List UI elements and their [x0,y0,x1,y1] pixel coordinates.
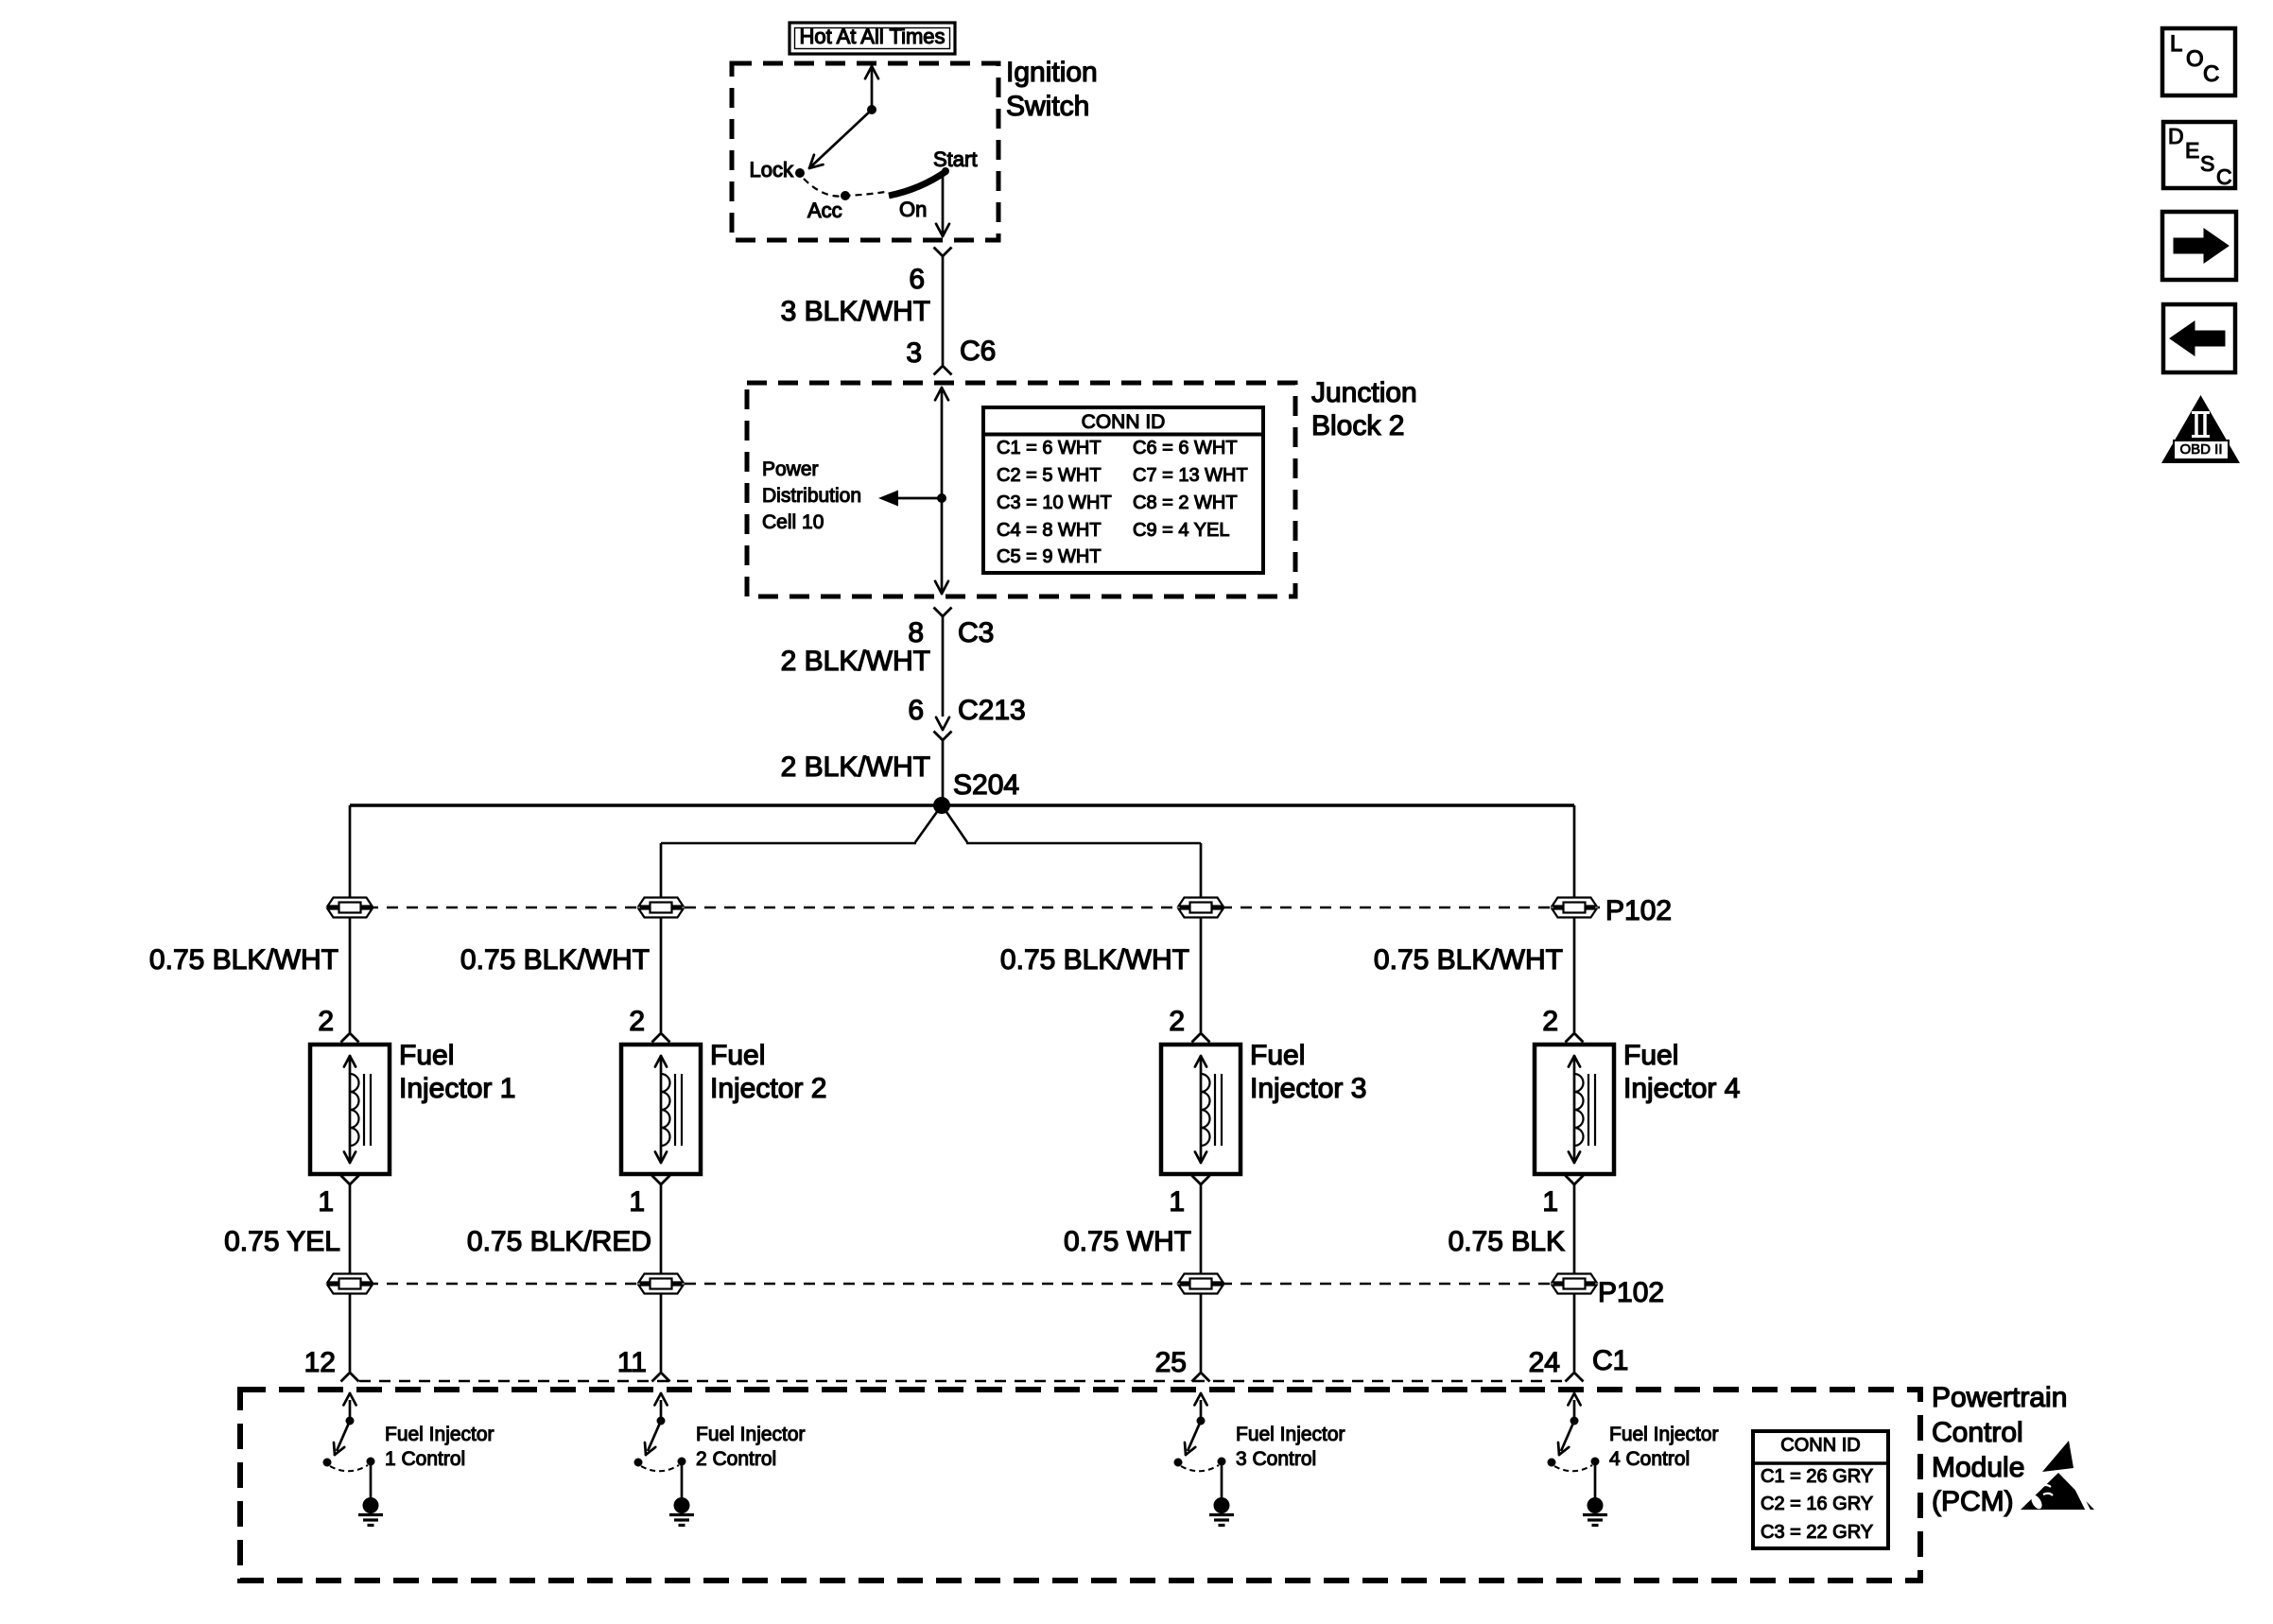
CONN ID table 1 header [1082,412,1166,432]
CONN ID table 1 border [983,407,1263,573]
splice S204 label [953,771,1019,800]
ignition switch pivot dot [867,105,876,114]
inner bus wire right segment [966,842,1201,845]
fuel injector 3 coil [1201,1074,1210,1146]
connector chevron ignition pin 6 [934,248,952,257]
ground symbol column 4 [1588,1497,1604,1513]
PCM driver ground stem column 2 [681,1465,684,1498]
connector chevron PCM pin column 4 [1566,1373,1584,1382]
PCM driver contact dot left column 4 [1548,1459,1556,1467]
wire 0.75 BLK/WHT column 4 [1573,918,1576,1032]
sidebar LOC icon box [2162,28,2235,95]
main bus wire horizontal [350,803,1574,807]
PCM driver arrow column 2 [660,1400,663,1421]
On position label [899,199,927,220]
wire label 2 BLK/WHT upper [781,648,930,676]
connector P102 label row 1 [1605,897,1672,925]
fuel injector 4 solenoid arrow [1573,1058,1576,1161]
pin 6 label C213 [908,697,924,725]
Lock contact dot [795,168,805,178]
harness dashed line P102 row 2 [327,1283,1592,1285]
pin 6 label [909,266,925,294]
wire injector to P102 column 4 [1573,1184,1576,1274]
injector pin 1 label column 4 [1542,1188,1558,1217]
fuel injector 2 box [621,1045,701,1174]
PCM driver lever column 2 [648,1421,661,1451]
in-line connector P102 upper column 3 [1179,898,1223,918]
wire color label column 3 [1064,1228,1191,1256]
sidebar forward arrow icon [2162,212,2236,280]
injector pin 2 label column 1 [318,1008,334,1036]
PCM pin 25 label [1155,1349,1187,1377]
fuel injector 1 core lines [363,1074,365,1146]
ground symbol column 1 [363,1497,379,1513]
ESD warning symbol [2042,1441,2073,1472]
sidebar DESC icon box [2163,122,2235,188]
PCM pin 24 label [1529,1349,1560,1377]
connector chevron injector pin 2 column 4 [1566,1033,1584,1043]
PCM driver contact dot left column 3 [1174,1459,1183,1467]
PCM driver arrow column 4 [1573,1400,1576,1421]
fuel injector 4 core lines [1588,1074,1589,1146]
PCM driver lever column 3 [1188,1421,1201,1451]
Start contact dot [942,167,949,175]
fuel injector 3 core lines [1214,1074,1216,1146]
in-line connector P102 lower column 1 [328,1274,373,1294]
CONN ID table 1 left column [997,435,1112,571]
CONN ID table 1 header rule [983,433,1263,437]
wire label 3 BLK/WHT [781,298,930,326]
wire color label column 4 [1449,1228,1565,1256]
connector chevron PCM pin column 3 [1192,1373,1210,1382]
PCM driver lever column 1 [337,1421,350,1451]
in-line connector P102 upper column 2 [639,898,684,918]
CONN ID table 2 border [1753,1431,1888,1548]
connector chevron PCM pin column 2 [652,1373,670,1382]
wire label 0.75 BLK/WHT column 4 [1374,946,1563,975]
sidebar LOC letters [2170,33,2182,56]
PCM driver contact dot left column 1 [323,1459,332,1467]
PCM driver ground stem column 4 [1594,1465,1597,1498]
PCM connector C1 label [1592,1347,1628,1375]
PCM driver contact dot left column 2 [634,1459,643,1467]
wire from bus to P102 column 4 [1573,805,1576,898]
wire label 0.75 BLK/WHT column 2 [460,946,650,975]
sidebar OBD II label [2179,442,2222,457]
pin 8 label [908,619,924,648]
fuel injector 4 box [1535,1045,1614,1174]
fuel injector 1 coil [350,1074,359,1146]
fuel injector 3 solenoid arrow [1200,1058,1203,1161]
wire from bus to P102 column 1 [349,805,352,898]
junction block internal wire with arrows [941,390,944,591]
PCM driver dashed arc column 1 [330,1465,368,1471]
connector chevron injector pin 1 column 2 [652,1176,670,1185]
wire 0.75 BLK/WHT column 1 [349,918,352,1032]
connector C6 label [960,337,996,366]
wire P102 to PCM column 1 [349,1294,352,1372]
power distribution cell label [762,457,861,536]
connector chevron injector pin 1 column 4 [1566,1176,1584,1185]
wire 2 BLK/WHT upper [942,616,945,717]
CONN ID table 1 right column [1133,435,1248,544]
PCM driver contact dot right column 3 [1218,1458,1226,1466]
ignition rotary dashed arc Lock-Acc-On [804,179,885,197]
PCM driver lever column 4 [1561,1421,1574,1451]
PCM driver dashed arc column 3 [1181,1465,1219,1471]
connector P102 label row 2 [1598,1279,1664,1307]
wire 0.75 BLK/WHT column 2 [660,918,663,1032]
wire color label column 1 [224,1228,340,1256]
Acc position label [807,200,842,221]
PCM driver pivot dot column 2 [657,1417,666,1425]
in-line connector P102 upper column 4 [1553,898,1597,918]
injector pin 2 label column 2 [629,1008,645,1036]
ignition switch dashed box [732,63,998,240]
in-line connector P102 lower column 2 [639,1274,684,1294]
in-line connector P102 lower column 4 [1553,1274,1597,1294]
PCM driver arrow column 1 [349,1400,352,1421]
fuel injector 4 name label [1623,1039,1740,1105]
wire 2 BLK/WHT lower [942,740,945,803]
CONN ID table 2 rows [1761,1463,1873,1546]
bus diagonal to inner branch left [915,809,939,842]
splice S204 dot [933,797,950,814]
ignition switch name label [1006,56,1098,124]
junction block 2 name label [1311,376,1417,442]
connector chevron C6 into junction block [934,366,952,375]
injector pin 2 label column 3 [1169,1008,1185,1036]
ignition output wire with down arrow [942,173,945,233]
PCM driver label fuel injector 3 control [1236,1423,1345,1473]
wire P102 to PCM column 4 [1573,1294,1576,1372]
ground symbol column 2 [674,1497,690,1513]
power distribution arrow [898,497,942,500]
PCM pin 11 label [617,1349,647,1377]
wire 0.75 BLK/WHT column 3 [1200,918,1203,1032]
sidebar OBD II triangle icon [2161,395,2240,463]
PCM driver arrow column 3 [1200,1400,1203,1421]
pin 3 label [906,339,922,368]
ignition feed wire with up arrow [871,69,874,110]
wire injector to P102 column 1 [349,1184,352,1274]
wire injector to P102 column 3 [1200,1184,1203,1274]
PCM driver dashed arc column 2 [641,1465,679,1471]
PCM pin 12 label [304,1349,336,1377]
Acc contact dot [841,191,850,200]
fuel injector 2 core lines [674,1074,676,1146]
injector pin 2 label column 4 [1542,1008,1558,1036]
sidebar DESC letters [2168,126,2184,147]
connector chevron junction block pin 8 [934,608,952,617]
fuel injector 1 box [310,1045,390,1174]
fuel injector 3 name label [1250,1039,1366,1105]
connector C3 label [958,619,994,648]
junction block wire tap dot [937,493,946,503]
junction block 2 dashed box [747,383,1295,596]
CONN ID table 2 header rule [1753,1461,1888,1465]
PCM driver contact dot right column 4 [1591,1458,1600,1466]
wire label 2 BLK/WHT lower [781,753,930,782]
On-Start thick contact arc [889,171,946,196]
PCM driver contact dot right column 2 [678,1458,686,1466]
ground symbol column 3 [1214,1497,1230,1513]
PCM driver ground stem column 1 [370,1465,373,1498]
wire label 0.75 BLK/WHT column 3 [1000,946,1189,975]
power feed box 'Hot At All Times' border [789,23,955,54]
PCM driver dashed arc column 4 [1554,1465,1592,1471]
in-line connector P102 upper column 1 [328,898,373,918]
in-line connector C213 [943,717,949,730]
connector chevron injector pin 1 column 1 [341,1176,359,1185]
wire 3 BLK/WHT vertical [942,256,945,365]
PCM driver contact dot right column 1 [367,1458,375,1466]
fuel injector 2 solenoid arrow [660,1058,663,1161]
PCM driver pivot dot column 4 [1570,1417,1579,1425]
wire P102 to PCM column 2 [660,1294,663,1372]
fuel injector 1 name label [399,1039,515,1105]
connector chevron PCM pin column 1 [341,1373,359,1382]
wire P102 to PCM column 3 [1200,1294,1203,1372]
fuel injector 1 solenoid arrow [349,1058,352,1161]
inner bus wire left segment [661,842,916,845]
PCM driver pivot dot column 1 [346,1417,355,1425]
wire from bus to P102 column 2 [660,843,663,898]
PCM driver ground stem column 3 [1221,1465,1223,1498]
powertrain control module dashed box [240,1390,1920,1581]
fuel injector 3 box [1161,1045,1241,1174]
Lock position label [750,160,793,181]
connector C213 label [958,697,1026,725]
wire color label column 2 [467,1228,651,1256]
connector chevron injector pin 1 column 3 [1192,1176,1210,1185]
CONN ID table 2 header [1780,1436,1860,1455]
connector chevron injector pin 2 column 3 [1192,1033,1210,1043]
injector pin 1 label column 2 [629,1188,645,1217]
wire label 0.75 BLK/WHT column 1 [149,946,338,975]
ignition switch lever arrow to Lock [811,110,872,166]
PCM driver label fuel injector 4 control [1609,1423,1719,1473]
fuel injector 2 name label [710,1039,826,1105]
PCM driver pivot dot column 3 [1197,1417,1206,1425]
wire injector to P102 column 2 [660,1184,663,1274]
bus diagonal to inner branch right [945,809,967,842]
connector chevron injector pin 2 column 2 [652,1033,670,1043]
fuel injector 4 coil [1574,1074,1584,1146]
power feed label 'Hot At All Times' [799,26,945,47]
in-line connector P102 lower column 3 [1179,1274,1223,1294]
powertrain control module name label [1932,1381,2067,1520]
sidebar back arrow icon [2163,304,2235,372]
PCM driver label fuel injector 1 control [385,1423,495,1473]
harness dashed line P102 row 1 [327,907,1600,908]
connector chevron injector pin 2 column 1 [341,1033,359,1043]
wire from bus to P102 column 3 [1200,843,1203,898]
PCM connector C1 thin dashed line [359,1380,1565,1382]
fuel injector 2 coil [661,1074,670,1146]
PCM driver label fuel injector 2 control [696,1423,806,1473]
Start position label [933,149,977,170]
injector pin 1 label column 1 [318,1188,334,1217]
injector pin 1 label column 3 [1169,1188,1185,1217]
